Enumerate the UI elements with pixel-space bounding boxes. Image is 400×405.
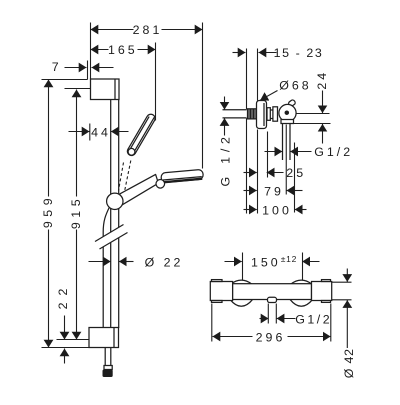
dashed handle (upright position) — [119, 163, 124, 191]
extension line 296 left — [211, 304, 213, 342]
dimension 15 - 23 — [233, 46, 324, 60]
svg-text:100: 100 — [262, 203, 292, 217]
svg-text:959: 959 — [41, 194, 55, 228]
dimension G 1/2 outlet — [265, 145, 354, 159]
extension line 150 left — [242, 253, 244, 281]
outlet centerline — [285, 125, 287, 195]
break mark diagonals — [95, 225, 124, 242]
dimension 22 (vertical, rotated text) — [56, 282, 70, 364]
dimension 100 — [244, 203, 307, 217]
svg-text:296: 296 — [256, 330, 286, 344]
paddle joint ring — [156, 180, 165, 189]
shower rail tube (left edge, with break) — [110, 100, 112, 233]
svg-text:15 - 23: 15 - 23 — [274, 46, 324, 60]
supply pipe — [223, 109, 247, 111]
left knob top grip — [212, 280, 223, 282]
dimension 7 — [52, 60, 114, 74]
left knob bottom grip — [212, 301, 223, 303]
dimension 915 (vertical, rotated text) — [69, 90, 83, 340]
svg-text:79: 79 — [264, 184, 284, 198]
svg-text:Ø 42: Ø 42 — [342, 348, 356, 378]
svg-text:24: 24 — [315, 70, 329, 90]
valve body collar 2 — [273, 107, 278, 121]
label diameter 68 with leader — [260, 78, 312, 100]
svg-text:G 1/2: G 1/2 — [219, 132, 233, 186]
extension line 100 right — [294, 143, 296, 213]
dimension G 1/2 mixer — [260, 312, 333, 326]
mixer body bar — [233, 284, 312, 300]
dimension G1/2 supply (vertical, rotated text) — [219, 97, 233, 187]
right knob top grip — [322, 280, 331, 282]
hand shower upright head (solid capsule) — [126, 113, 157, 157]
hose nut dark end — [103, 370, 113, 378]
bottom wall bracket — [89, 328, 119, 348]
svg-text:G1/2: G1/2 — [314, 145, 353, 159]
extension lines diameter 42 — [332, 281, 352, 283]
dimension 79 — [244, 184, 303, 198]
valve body connector — [270, 109, 273, 111]
outlet nub — [268, 297, 277, 302]
extension line rail end — [57, 339, 90, 341]
dimension 281 — [91, 23, 203, 37]
dimension 959 (vertical, rotated text) — [41, 80, 55, 348]
top wall bracket cap — [91, 79, 120, 100]
svg-text:G1/2: G1/2 — [295, 312, 332, 326]
extension line wall L2 — [87, 61, 89, 80]
dimension 25 — [244, 166, 307, 180]
valve body collar 1 — [267, 108, 270, 121]
svg-text:22: 22 — [56, 282, 70, 310]
extension line 281 right — [202, 23, 204, 169]
hose outlet below bracket — [104, 348, 106, 366]
handle lever tab — [288, 99, 296, 107]
right shutoff knob — [312, 282, 332, 301]
left temperature knob — [210, 282, 232, 301]
dimension 24 (rotated text) — [315, 70, 329, 144]
svg-text:165: 165 — [108, 43, 138, 57]
svg-text:Ø 22: Ø 22 — [145, 255, 184, 269]
bracket inner shading line — [113, 328, 115, 348]
extension line bracket bottom — [42, 347, 90, 349]
tile front line — [257, 49, 259, 101]
dimension 296 — [213, 330, 331, 344]
dimension 165 — [91, 43, 156, 57]
svg-text:7: 7 — [52, 60, 62, 74]
left union pipe top arc — [231, 280, 252, 284]
svg-text:44: 44 — [91, 125, 111, 139]
hose nut collar — [104, 366, 112, 370]
outlet collar below handle — [281, 120, 294, 124]
extension line 150 right — [302, 253, 304, 281]
right knob bottom grip — [322, 301, 331, 303]
dimension diameter 22 — [89, 255, 184, 269]
shower rail tube (right edge, with break) — [118, 100, 120, 228]
hand shower paddle head — [161, 169, 204, 182]
svg-text:915: 915 — [69, 195, 83, 229]
extension line 165 right — [155, 43, 157, 121]
holder pivot on rail — [107, 193, 123, 209]
svg-text:281: 281 — [133, 23, 163, 37]
left union nut bottom arc — [230, 299, 253, 306]
extension line wall L1 — [90, 23, 92, 80]
upright head end ring — [128, 148, 135, 155]
extension line 915 top — [65, 88, 91, 90]
right union nut bottom arc — [290, 299, 313, 306]
wall back line — [246, 49, 248, 110]
extension lines 24 — [297, 113, 330, 115]
extension line 296 right — [330, 304, 332, 342]
cap inner shading line — [114, 79, 116, 100]
hose from handle down along rail — [103, 207, 109, 328]
right union pipe top arc — [291, 280, 312, 284]
extension line escutcheon front — [267, 132, 269, 178]
handle round knob — [279, 104, 296, 121]
pipe thread section — [247, 109, 257, 119]
svg-text:25: 25 — [286, 166, 306, 180]
dimension 150 +/-12 — [225, 254, 320, 269]
extension lines G1/2 nub — [267, 304, 269, 324]
svg-text:Ø68: Ø68 — [279, 78, 311, 92]
dimension diameter 42 (rotated text) — [342, 269, 356, 379]
hand shower handle (solid, horizontal) — [118, 174, 159, 207]
escutcheon (diameter 68 plate, edge view) — [257, 101, 267, 129]
outlet nipple G1/2 — [282, 124, 284, 161]
dimension 44 — [69, 124, 129, 141]
handle center dot — [285, 110, 290, 115]
extension line 959 top — [42, 79, 88, 81]
